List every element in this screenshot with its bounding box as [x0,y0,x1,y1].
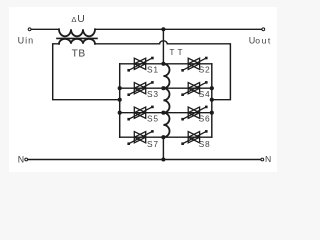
junction dot TT tap row 4 [161,135,165,139]
terminal N left [25,158,28,161]
svg-text:S6: S6 [199,114,211,124]
wire TB secondary left end loop to left rail [53,44,118,100]
terminal Uin [28,28,31,31]
wire Uin to TB primary [31,28,59,30]
transformer TT winding section 3 [163,113,169,138]
transformer TB secondary winding [59,39,95,44]
row 3 tap wire [120,112,212,114]
svg-text:S3: S3 [147,89,159,99]
junction dot TT tap row 1 [161,62,165,66]
junction dot node A on main line [161,27,165,31]
row 2 tap wire [120,87,212,89]
right rail wire [211,64,213,137]
svg-text:TB: TB [72,49,86,60]
thyristor key S1 [127,57,153,72]
thyristor key S4 [181,81,207,96]
terminal N right [261,158,264,161]
junction dot TT bottom at N line [161,157,165,161]
thyristor key S5 [127,106,153,121]
svg-text:Uin: Uin [18,36,35,46]
junction dot right rail row3 [210,111,214,115]
svg-text:S5: S5 [147,114,159,124]
transformer TT winding section 2 [163,88,169,113]
wire neutral N line [28,159,261,161]
terminal Uout [262,28,265,31]
svg-text:N: N [18,154,24,164]
junction dot TT tap row 2 [161,86,165,90]
junction dot TT tap row 3 [161,111,165,115]
wire node A down to TT winding top [162,29,164,64]
svg-text:S4: S4 [199,89,211,99]
transformer TB primary winding [59,29,95,36]
wire TB secondary right end with hop over TT riser [95,41,230,100]
svg-text:S1: S1 [147,65,159,75]
transformer TB core [57,37,97,39]
svg-text:S2: S2 [199,65,211,75]
junction dot left rail row2 [118,86,122,90]
svg-text:S8: S8 [199,139,211,149]
svg-text:N: N [265,154,271,164]
junction dot left rail row3 [118,111,122,115]
svg-text:ΔU: ΔU [71,14,84,25]
svg-text:S7: S7 [147,139,159,149]
thyristor key S3 [127,81,153,96]
left rail wire [119,64,121,137]
transformer TT winding section 1 [163,64,169,88]
row 4 tap wire [120,136,212,138]
junction dot right rail feed [210,98,214,102]
junction dot right rail row2 [210,86,214,90]
wire TB primary to node A and on to Uout [95,28,262,30]
thyristor key S7 [127,130,153,145]
svg-text:Uout: Uout [249,36,272,46]
row 1 tap wire [120,63,212,65]
junction dot left rail feed [118,98,122,102]
svg-text:TT: TT [169,47,185,57]
wire TT winding bottom to N line [162,137,164,159]
thyristor key S8 [181,130,207,145]
thyristor key S2 [181,57,207,72]
thyristor key S6 [181,106,207,121]
